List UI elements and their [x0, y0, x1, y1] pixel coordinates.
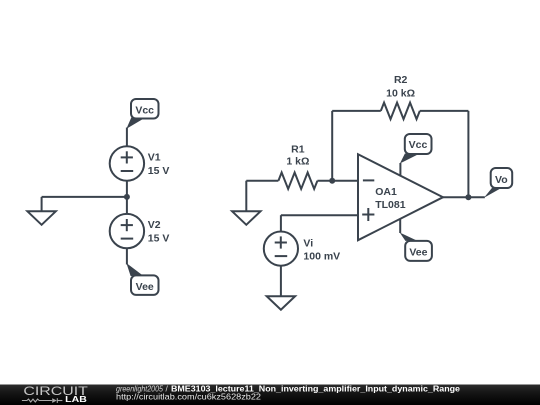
wire: V2 bottom to Vee flag — [126, 248, 128, 264]
wire: op-amp output — [443, 196, 485, 198]
label Vi 100 mV — [303, 237, 340, 262]
wire: mid node to V2 top — [126, 197, 128, 214]
wire: R1 left lead — [246, 180, 278, 182]
svg-text:10 kΩ: 10 kΩ — [386, 88, 415, 100]
voltage source Vi — [264, 232, 298, 266]
wire: R2 right lead — [420, 110, 469, 112]
ground symbol (left supply) — [27, 197, 55, 225]
svg-text:Vee: Vee — [409, 247, 427, 259]
wire: op-amp + input horizontal — [281, 214, 358, 216]
wire: feedback vertical — [331, 111, 333, 181]
footer bar — [0, 385, 540, 405]
wire: Vi bottom to ground — [280, 266, 282, 297]
resistor R1 — [278, 172, 317, 189]
node dot (output / feedback) — [465, 194, 471, 200]
voltage source V1 — [110, 146, 144, 180]
svg-text:Vcc: Vcc — [135, 105, 154, 117]
net flag Vo (output) — [484, 168, 512, 198]
wire: R2 left lead — [332, 110, 381, 112]
svg-text:Vo: Vo — [495, 174, 508, 186]
svg-text:TL081: TL081 — [375, 199, 406, 211]
op-amp OA1 TL081 — [358, 154, 443, 240]
svg-text:Vcc: Vcc — [409, 139, 428, 151]
label V1 15 V — [148, 152, 170, 177]
node junction dot (V1/V2/ground) — [124, 194, 130, 200]
wire: V1 bottom to mid node — [126, 181, 128, 197]
svg-text:100 mV: 100 mV — [303, 251, 340, 263]
voltage source V2 — [110, 214, 144, 248]
net flag Vee (op-amp V-) — [400, 219, 432, 261]
svg-text:OA1: OA1 — [375, 186, 397, 198]
svg-text:15 V: 15 V — [148, 165, 170, 177]
wire: feedback right vertical to output — [467, 111, 469, 197]
resistor R2 — [381, 103, 420, 120]
svg-text:15 V: 15 V — [148, 233, 170, 245]
node dot (inverting input / feedback) — [329, 178, 335, 184]
net flag Vcc (left supply) — [126, 99, 158, 129]
svg-text:Vi: Vi — [303, 237, 313, 249]
net flag Vcc (op-amp V+) — [400, 134, 432, 176]
svg-text:V1: V1 — [148, 152, 161, 164]
svg-text:1 kΩ: 1 kΩ — [286, 155, 309, 167]
wire: R1 right lead to op-amp inverting input — [317, 180, 358, 182]
wire: Vi top vertical — [280, 215, 282, 231]
ground symbol (Vi) — [267, 296, 295, 310]
wire: Vcc flag to V1 top — [126, 128, 128, 147]
svg-text:Vee: Vee — [136, 281, 154, 293]
footer logo resistor-diode symbol — [22, 398, 63, 403]
label R1 1 kOhm — [286, 143, 309, 167]
svg-text:V2: V2 — [148, 219, 161, 231]
wire: mid node to ground (horizontal) — [42, 196, 127, 198]
footer line 1: user / title — [116, 383, 460, 393]
label V2 15 V — [148, 219, 170, 244]
svg-text:LAB: LAB — [65, 395, 87, 404]
net flag Vee (left supply) — [126, 263, 158, 295]
svg-text:http://circuitlab.com/cu6kz562: http://circuitlab.com/cu6kz5628zb22 — [116, 393, 261, 402]
ground symbol (R1 input) — [232, 181, 260, 225]
svg-text:R2: R2 — [394, 74, 408, 86]
label R2 10 kOhm — [386, 74, 415, 100]
svg-text:R1: R1 — [291, 143, 305, 155]
